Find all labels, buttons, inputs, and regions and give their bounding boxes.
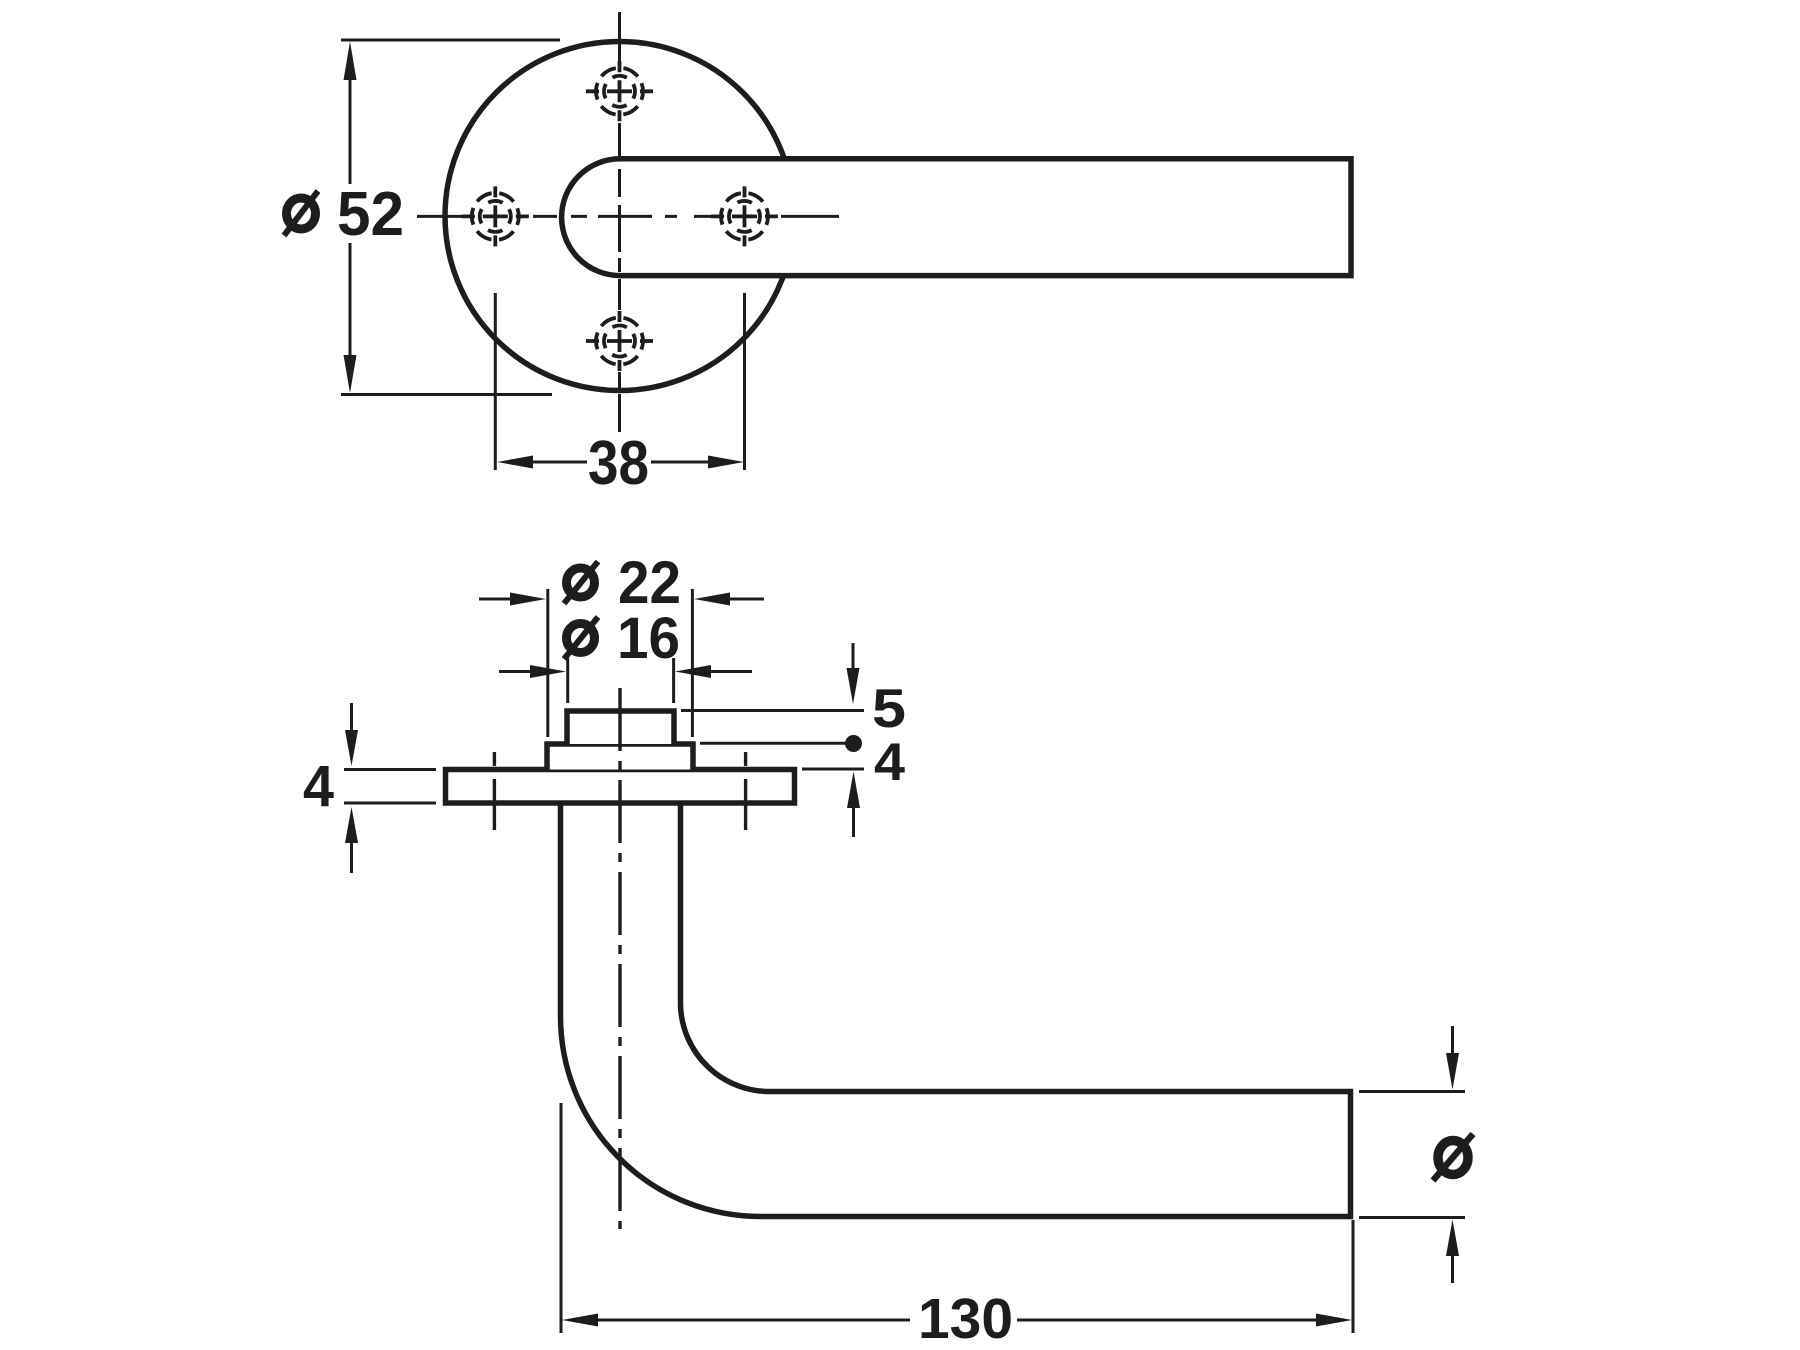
dim Ø arrows: [1446, 1026, 1459, 1283]
lever handle outline (side view L-shape): [561, 801, 1351, 1217]
dim Ø52 bottom extension line: [341, 393, 552, 396]
dim 4 right: leader with dot: [700, 735, 862, 752]
collar step Ø22 (side view): [547, 744, 693, 770]
label Ø (bar diameter symbol): [1433, 1134, 1473, 1181]
hidden screw line right (side view): [744, 752, 747, 830]
svg-text:4: 4: [874, 733, 906, 792]
dim Ø22 right extension line: [691, 589, 694, 737]
lever handle (plan view, stadium shape): [562, 159, 1351, 276]
svg-text:38: 38: [588, 429, 649, 498]
dim 4 left: arrows: [345, 703, 358, 873]
dim 4 right: extension + arrow: [802, 769, 864, 837]
label Ø 22 : diameter symbol: [564, 562, 598, 604]
dim 38 dimension line + arrows: [497, 456, 744, 469]
svg-text:130: 130: [918, 1287, 1013, 1350]
hidden screw line left (side view): [493, 752, 496, 830]
dim Ø16 arrows: [499, 665, 752, 678]
dim 130: dimension line + arrows: [562, 1314, 1352, 1327]
dim Ø22 left extension line: [546, 589, 549, 737]
dim 5: leader + arrow: [681, 643, 864, 711]
dim 130: extension lines: [560, 1103, 563, 1333]
label Ø 16 : diameter symbol: [564, 617, 598, 659]
screw hole right: [711, 183, 778, 249]
vertical centerline (top view): [618, 12, 621, 432]
dim Ø52 top extension line: [341, 39, 560, 42]
dim Ø16 left extension line: [566, 658, 569, 703]
dim 4 left: extension lines: [344, 768, 436, 771]
boss Ø16 (side view): [567, 711, 674, 744]
dim Ø22 arrows: [479, 593, 764, 606]
dim Ø (bar diameter): extension lines: [1359, 1090, 1465, 1093]
svg-text:16: 16: [617, 606, 680, 671]
vertical centerline (side view): [618, 688, 621, 1229]
horizontal centerline (top view): [417, 215, 839, 218]
screw hole left: [462, 183, 529, 249]
dim Ø52 dimension line + arrows: [344, 42, 357, 394]
svg-text:52: 52: [337, 180, 404, 249]
svg-text:4: 4: [303, 754, 334, 819]
screw hole bottom: [586, 308, 653, 374]
rose (round escutcheon) circle: [445, 42, 794, 391]
dim 38 left extension line: [494, 293, 497, 470]
rose plate (side view): [446, 770, 795, 804]
svg-text:5: 5: [872, 677, 906, 739]
label Ø 52 : diameter symbol: [284, 191, 318, 236]
dim 38 right extension line: [743, 293, 746, 470]
screw hole top: [586, 58, 653, 124]
dim Ø16 right extension line: [672, 658, 675, 703]
